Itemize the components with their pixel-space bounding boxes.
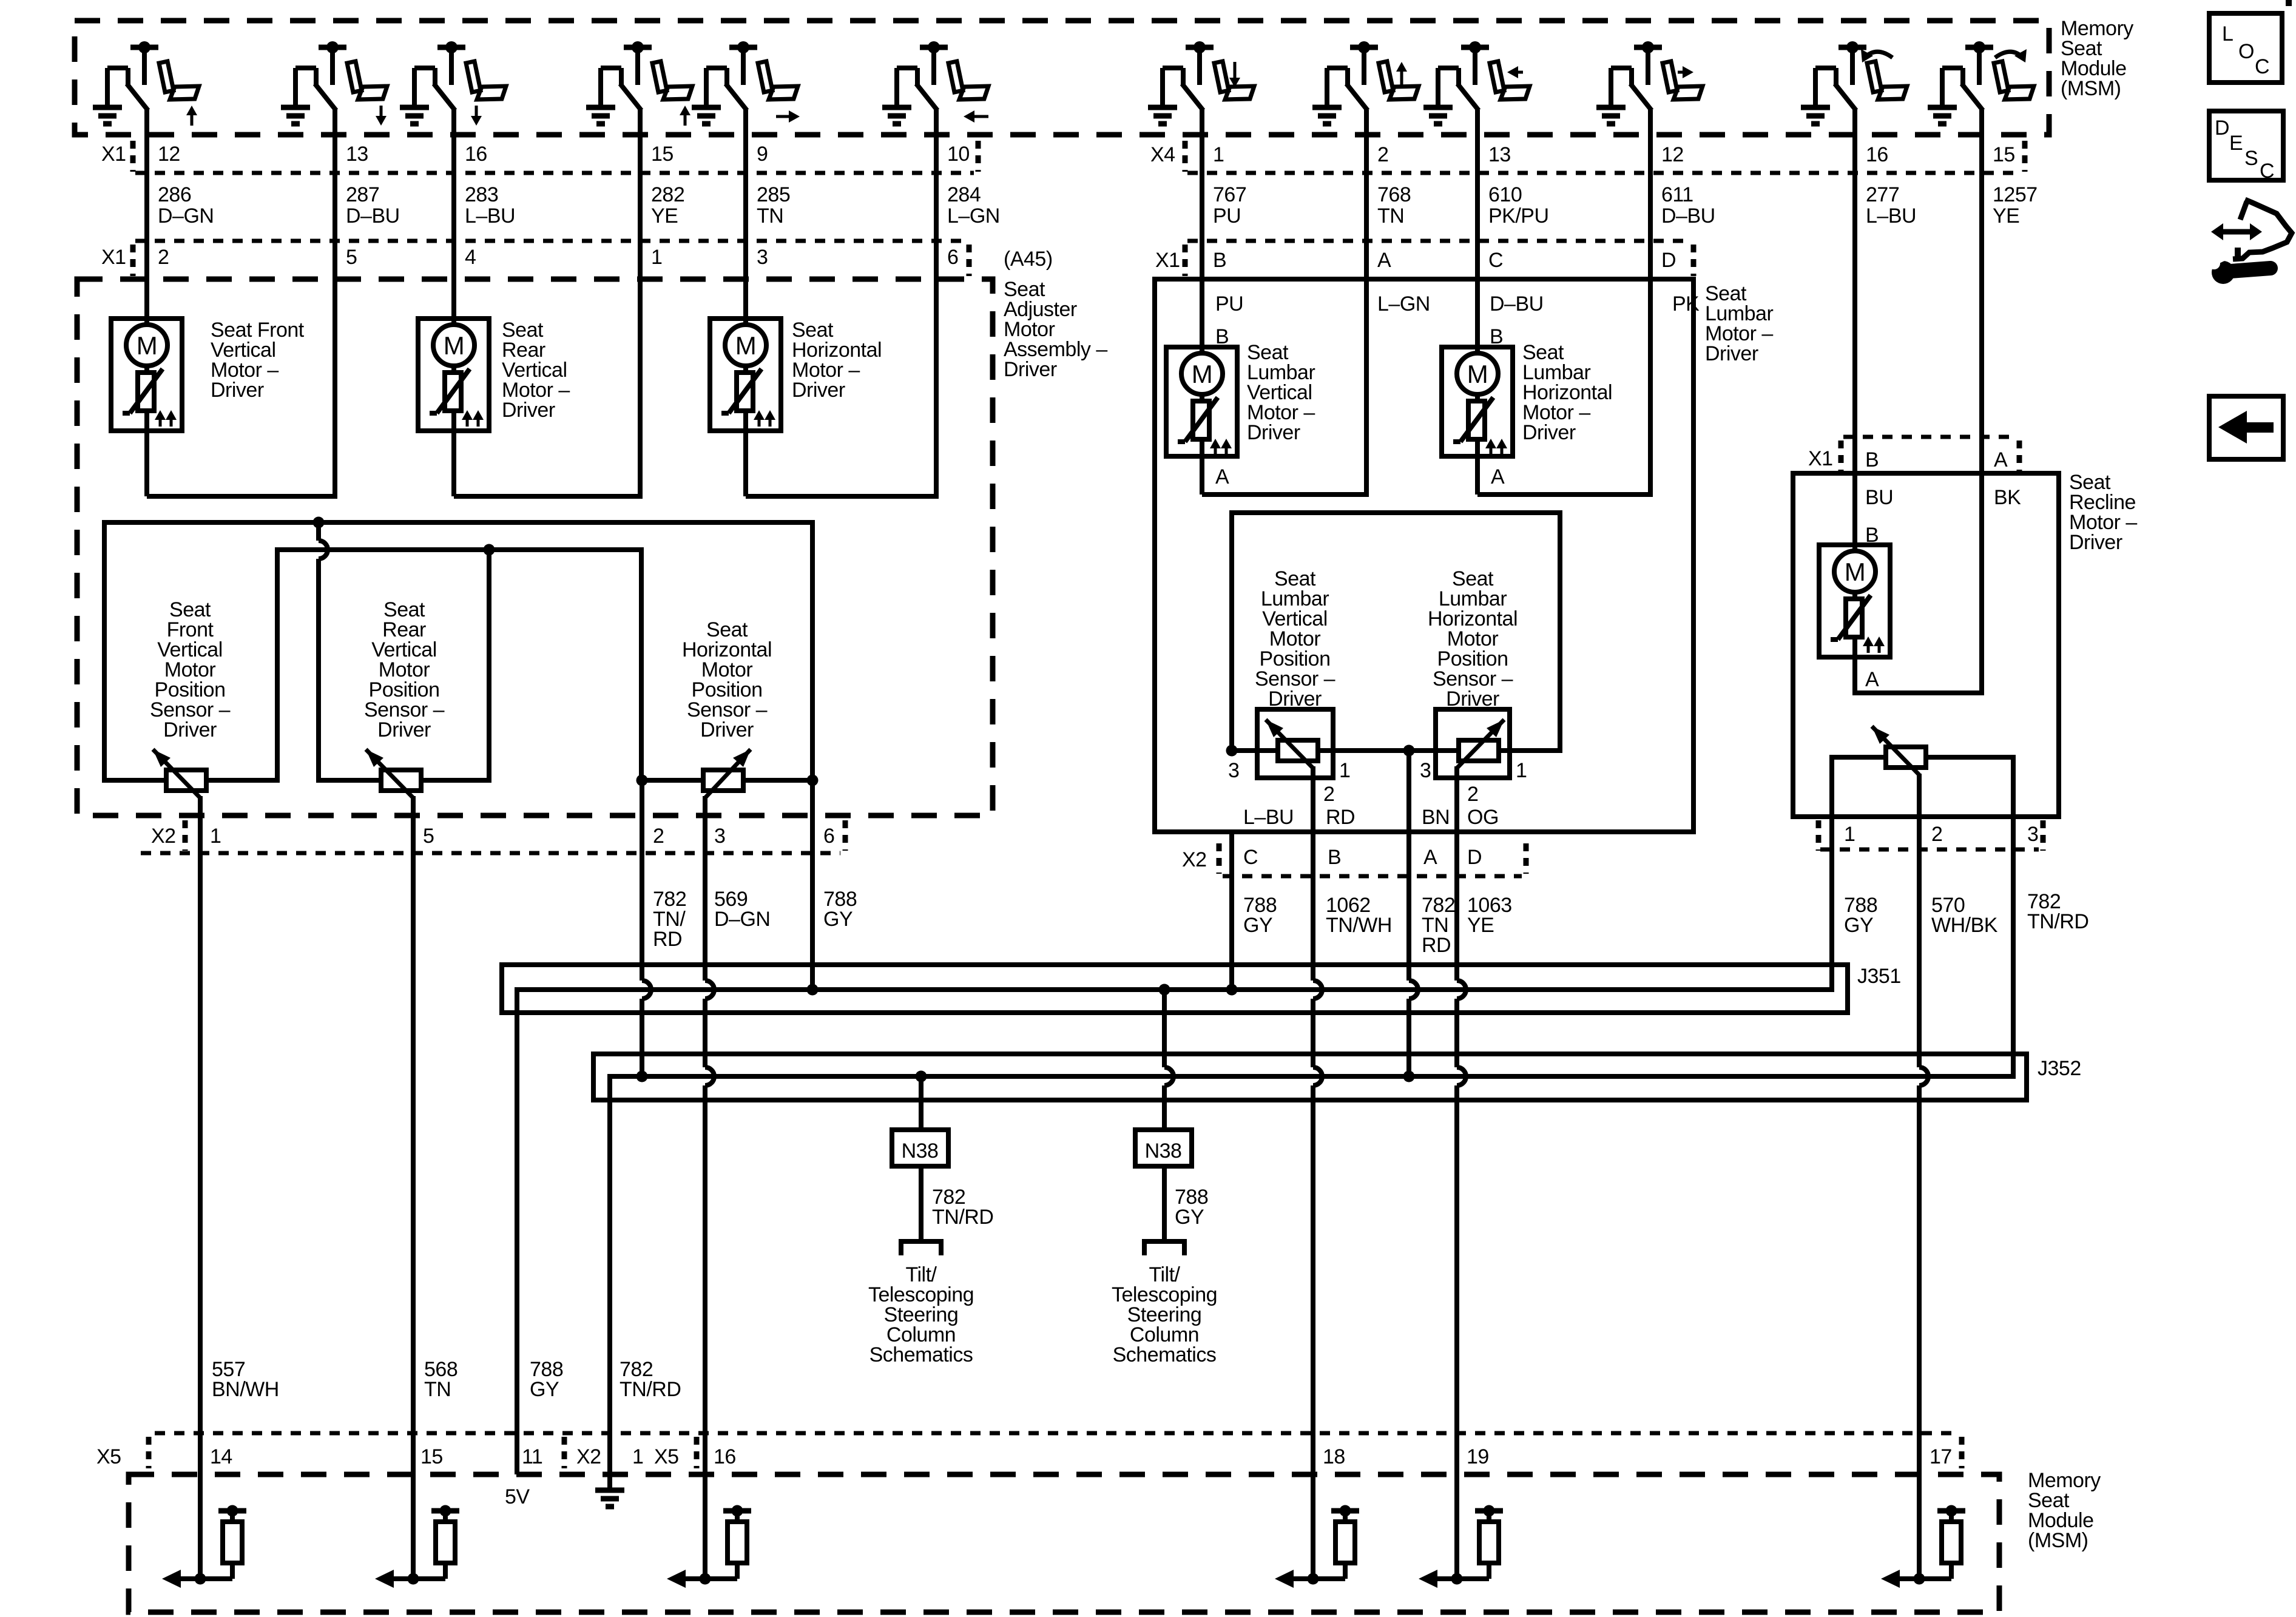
- svg-text:15: 15: [1993, 143, 2015, 166]
- switch: seat horizontal rearward switch: [882, 41, 988, 124]
- svg-text:L–BU: L–BU: [465, 204, 515, 228]
- switch: seat recline forward switch: [1928, 41, 2034, 124]
- X5 bottom row separator 1: [146, 1437, 152, 1468]
- svg-text:TN: TN: [1377, 204, 1404, 228]
- svg-text:TN: TN: [757, 204, 783, 228]
- wire: motor M2 return to pin 1 wire: [454, 494, 643, 499]
- wire 569 D-GN X2-3 to X5-16: [703, 796, 707, 981]
- lumbar sensors container left wire (pin C): [1229, 510, 1234, 753]
- MSM internal pull-up resistor and arrow at pin 14: [195, 1573, 206, 1585]
- svg-text:X1: X1: [1808, 447, 1833, 470]
- Seat Recline Motor outer box: [1793, 473, 2059, 817]
- wire N38-1 to off-page: [919, 1166, 923, 1241]
- X2 lumbar row separator left: [1217, 843, 1222, 874]
- svg-text:TN: TN: [424, 1378, 451, 1401]
- switch: lumbar vertical down switch: [1148, 41, 1254, 124]
- switch: seat front vertical up switch: [93, 41, 199, 126]
- splice pack J352 bus conductor: [607, 1074, 2016, 1079]
- wire: motor M3 return to pin 6 wire: [746, 494, 939, 499]
- wire from switch at x=552 down: [333, 110, 337, 499]
- svg-text:A: A: [1423, 846, 1437, 869]
- junction dot J351 x=1919: [1159, 984, 1170, 996]
- svg-text:(MSM): (MSM): [2061, 77, 2121, 100]
- svg-text:4: 4: [465, 246, 476, 269]
- wire N38-2 to off-page: [1162, 1166, 1167, 1241]
- svg-text:L: L: [2222, 22, 2233, 46]
- svg-text:16: 16: [465, 143, 487, 166]
- switch: seat rear vertical up/down switch: [400, 41, 506, 126]
- splice N38 box 2: [1135, 1130, 1192, 1166]
- LOC legend box: [2209, 13, 2282, 83]
- svg-text:X2: X2: [576, 1445, 601, 1468]
- splice pack J352 outer loop: [593, 1054, 2027, 1100]
- svg-text:C: C: [2260, 160, 2274, 183]
- X1 connector row 1 separator right: [976, 141, 981, 172]
- switch: lumbar vertical up switch: [1312, 41, 1419, 124]
- wire from switch at x=3266 down: [1979, 110, 1984, 695]
- seat front vertical motor M1 (driver): [111, 319, 182, 431]
- svg-text:C: C: [2255, 55, 2269, 78]
- Memory Seat Module (MSM) dashed enclosure (top): [75, 21, 2049, 135]
- potentiometer: lumbar vertical position sensor: [1278, 740, 1318, 761]
- harness connector icon double arrow: [2223, 229, 2237, 235]
- wrench icon: [2212, 261, 2235, 284]
- wire 782 TN/RD recline 3 to J352: [2011, 849, 2016, 1079]
- svg-text:A: A: [1377, 249, 1391, 272]
- svg-text:1: 1: [1213, 143, 1224, 166]
- switch: lumbar horizontal switch 2: [1596, 41, 1703, 124]
- svg-text:16: 16: [714, 1445, 736, 1468]
- svg-text:15: 15: [651, 143, 674, 166]
- svg-text:285: 285: [757, 183, 790, 206]
- svg-text:M: M: [1192, 360, 1213, 388]
- wire 557 BN/WH sensor1 wiper to X5-14: [198, 796, 203, 1579]
- svg-text:Driver: Driver: [1004, 358, 1057, 381]
- X4 connector row separator left: [1183, 141, 1188, 172]
- svg-text:3: 3: [757, 246, 768, 269]
- seat lumbar horizontal motor (driver): [1442, 347, 1513, 456]
- potentiometer: seat horizontal position sensor: [703, 770, 743, 791]
- svg-text:2: 2: [158, 246, 169, 269]
- X1 lumbar connector row separator left: [1183, 245, 1188, 276]
- svg-text:TN/RD: TN/RD: [620, 1378, 681, 1401]
- svg-text:BN/WH: BN/WH: [212, 1378, 279, 1401]
- wire from switch at x=3057 down: [1852, 110, 1857, 551]
- X5 bottom row separator 2: [562, 1437, 567, 1468]
- svg-text:Driver: Driver: [1247, 421, 1300, 444]
- svg-text:RD: RD: [653, 928, 682, 951]
- seat lumbar vertical motor (driver): [1166, 347, 1237, 456]
- svg-text:PU: PU: [1213, 204, 1241, 228]
- svg-text:C: C: [1488, 249, 1503, 272]
- wire from switch at x=748 down: [451, 110, 456, 325]
- Seat Adjuster Motor Assembly (A45) dashed enclosure: [77, 279, 993, 815]
- seat lumbar horizontal position sensor box: [1436, 709, 1510, 778]
- wire: lumbar horizontal motor return down: [1475, 456, 1480, 495]
- svg-text:L–BU: L–BU: [1866, 204, 1916, 228]
- junction dot sensor3 bottom right: [807, 775, 819, 786]
- svg-text:X2: X2: [1182, 848, 1207, 871]
- off-page connector 1: [901, 1241, 941, 1255]
- svg-text:D: D: [2215, 116, 2229, 140]
- svg-text:B: B: [1328, 846, 1341, 869]
- junction dot lumbar line left: [1226, 745, 1238, 757]
- wire: sensor supply line A: [102, 520, 815, 525]
- svg-text:Driver: Driver: [163, 718, 217, 741]
- svg-text:17: 17: [1930, 1445, 1952, 1468]
- recline X1 row separator right: [2017, 441, 2022, 471]
- wire: motor M1 return to pin 5 wire: [147, 494, 337, 499]
- MSM internal pull-up resistor and arrow at pin 19: [1451, 1573, 1463, 1585]
- svg-text:1: 1: [651, 246, 662, 269]
- MSM internal pull-up resistor and arrow at pin 17: [1914, 1573, 1925, 1585]
- wire: lumbar horizontal motor return to pin D: [1477, 492, 1653, 497]
- svg-text:3: 3: [2027, 823, 2038, 846]
- X4 connector row bottom dashed line: [1187, 171, 2021, 175]
- potentiometer: seat rear vertical position sensor: [381, 770, 421, 791]
- svg-text:D–BU: D–BU: [1661, 204, 1715, 228]
- junction dot lumbar line mid: [1403, 745, 1415, 757]
- svg-text:2: 2: [1467, 783, 1478, 806]
- svg-text:18: 18: [1323, 1445, 1345, 1468]
- svg-text:J352: J352: [2038, 1057, 2081, 1080]
- svg-text:X1: X1: [101, 246, 126, 269]
- svg-text:Schematics: Schematics: [869, 1343, 973, 1366]
- svg-text:2: 2: [1931, 823, 1942, 846]
- svg-text:GY: GY: [1175, 1206, 1204, 1229]
- potentiometer: seat recline position sensor: [1886, 747, 1926, 768]
- wire from switch at x=2252 down: [1364, 110, 1369, 497]
- sensor1 box bottom wire: [102, 778, 280, 783]
- X1 lumbar connector row separator right: [1691, 245, 1697, 276]
- svg-text:3: 3: [1420, 759, 1431, 782]
- svg-text:11: 11: [522, 1445, 542, 1468]
- sensor2 left wire with hop over line B: [316, 522, 321, 541]
- svg-text:6: 6: [823, 825, 834, 848]
- svg-text:283: 283: [465, 183, 498, 206]
- svg-text:L–BU: L–BU: [1243, 806, 1294, 829]
- wire from switch at x=242 down: [144, 110, 149, 325]
- MSM internal pull-up resistor and arrow at pin 16: [700, 1573, 711, 1585]
- X1 connector row 1 separator left: [130, 141, 136, 172]
- switch: seat front vertical switch: [586, 41, 692, 126]
- svg-text:13: 13: [1488, 143, 1511, 166]
- svg-text:12: 12: [158, 143, 180, 166]
- wire 788 GY recline 1 to J351: [1829, 849, 1834, 992]
- svg-text:TN/RD: TN/RD: [932, 1206, 993, 1229]
- svg-text:12: 12: [1661, 143, 1684, 166]
- junction dot J352 x=2322: [1403, 1071, 1415, 1082]
- svg-text:M: M: [1845, 558, 1866, 586]
- svg-text:PK: PK: [1672, 292, 1700, 316]
- wire 788 GY X2-6 to J351: [810, 780, 815, 990]
- wire: sensor return line B: [275, 547, 644, 552]
- wire: recline pin1 wire down inside box: [1829, 755, 1834, 849]
- svg-text:13: 13: [346, 143, 368, 166]
- svg-text:Driver: Driver: [211, 379, 264, 402]
- svg-text:TN/WH: TN/WH: [1326, 914, 1392, 937]
- svg-text:D–GN: D–GN: [158, 204, 214, 228]
- svg-text:BK: BK: [1994, 486, 2021, 509]
- svg-text:M: M: [735, 331, 757, 360]
- svg-text:6: 6: [947, 246, 958, 269]
- svg-text:B: B: [1213, 249, 1226, 272]
- svg-text:TN/RD: TN/RD: [2027, 910, 2088, 933]
- junction dot sensor3 bottom left: [636, 775, 648, 786]
- svg-text:10: 10: [947, 143, 970, 166]
- potentiometer: lumbar horizontal position sensor: [1459, 740, 1499, 761]
- junction dot J352 x=1060: [636, 1071, 648, 1082]
- svg-text:Schematics: Schematics: [1113, 1343, 1217, 1366]
- junction dot J352 x=1518: [916, 1071, 927, 1082]
- svg-text:1: 1: [1516, 759, 1527, 782]
- lumbar sensor supply line: [1229, 748, 1562, 753]
- wire: motor M2 return down: [451, 431, 456, 496]
- svg-text:2: 2: [653, 825, 664, 848]
- sensor3 box left edge wire: [639, 547, 644, 783]
- svg-text:19: 19: [1467, 1445, 1489, 1468]
- X5 bottom row separator 3: [694, 1437, 700, 1468]
- svg-text:RD: RD: [1422, 934, 1451, 957]
- wire: recline pin3 wire down inside box: [2011, 755, 2016, 849]
- wire N38 branch 2 to J351: [1162, 990, 1167, 1067]
- svg-text:3: 3: [1228, 759, 1239, 782]
- svg-text:1: 1: [1844, 823, 1855, 846]
- svg-text:GY: GY: [530, 1378, 559, 1401]
- svg-text:M: M: [137, 331, 158, 360]
- lumbar sensors container right wire: [1558, 510, 1562, 753]
- wire 788 GY lumbar C to J351: [1229, 832, 1234, 990]
- junction dot J351 x=1339: [807, 984, 819, 996]
- wire: motor M1 return down: [144, 431, 149, 496]
- wire 1062 TN/WH lumbar B to X5-18: [1311, 766, 1315, 981]
- svg-text:D: D: [1661, 249, 1676, 272]
- svg-text:1257: 1257: [1993, 183, 2038, 206]
- svg-text:N38: N38: [902, 1139, 939, 1163]
- X1 connector row 1 bottom dashed line: [135, 171, 974, 175]
- svg-text:X2: X2: [151, 825, 176, 848]
- ground symbol at X2-1: [595, 1488, 624, 1493]
- wire from switch at x=1981 down: [1200, 110, 1204, 353]
- svg-text:9: 9: [757, 143, 768, 166]
- recline bottom row dashed line: [1820, 848, 2039, 852]
- potentiometer: seat front vertical position sensor: [166, 770, 206, 791]
- svg-text:14: 14: [210, 1445, 232, 1468]
- splice N38 box 1: [892, 1130, 948, 1166]
- wire 570 WH/BK recline 2 to X5-17: [1917, 849, 1922, 1067]
- junction dot J351 x=2030: [1226, 984, 1238, 996]
- back arrow legend box: [2209, 396, 2283, 459]
- svg-text:N38: N38: [1145, 1139, 1182, 1163]
- switch: lumbar horizontal switch: [1423, 41, 1530, 124]
- svg-text:D–GN: D–GN: [714, 908, 770, 931]
- wire 782 TN RD lumbar A to J352: [1406, 751, 1411, 981]
- svg-text:5V: 5V: [505, 1485, 530, 1508]
- recline X1 row separator left: [1838, 441, 1844, 471]
- junction dot on line B: [484, 544, 495, 556]
- MSM internal pull-up resistor and arrow at pin 18: [1308, 1573, 1319, 1585]
- sensor2 right edge wire: [487, 550, 491, 783]
- Seat Lumbar Motor assembly outer box: [1155, 279, 1693, 832]
- svg-text:D–BU: D–BU: [1490, 292, 1544, 316]
- svg-text:A: A: [1994, 448, 2008, 471]
- DESC legend box: [2209, 111, 2283, 180]
- svg-text:X1: X1: [1155, 249, 1180, 272]
- svg-text:16: 16: [1866, 143, 1888, 166]
- X2 lumbar row separator right: [1524, 843, 1529, 874]
- svg-text:284: 284: [947, 183, 981, 206]
- wire from switch at x=1543 down: [934, 110, 939, 499]
- switch: seat horizontal forward switch: [692, 41, 800, 124]
- X1 connector row 2 separator right: [967, 245, 972, 276]
- svg-text:BN: BN: [1422, 806, 1450, 829]
- wire 788 GY J351 to X5-11 (5V): [515, 987, 519, 1474]
- svg-text:1: 1: [1339, 759, 1350, 782]
- wire from switch at x=2435 down: [1475, 110, 1480, 353]
- wire 782 TN/RD J352 to X2-1 ground: [607, 1074, 612, 1488]
- svg-text:2: 2: [1323, 783, 1334, 806]
- svg-text:Driver: Driver: [1522, 421, 1576, 444]
- off-page connector 2: [1144, 1241, 1184, 1255]
- svg-text:Driver: Driver: [502, 399, 555, 422]
- svg-text:E: E: [2229, 132, 2243, 155]
- svg-text:(MSM): (MSM): [2028, 1529, 2088, 1552]
- svg-text:(A45): (A45): [1004, 248, 1053, 271]
- svg-text:O: O: [2238, 40, 2254, 63]
- svg-text:PU: PU: [1215, 292, 1243, 316]
- sensor1 box left edge wire: [102, 520, 107, 783]
- svg-text:X5: X5: [654, 1445, 679, 1468]
- sensor2 box bottom wire: [316, 778, 491, 783]
- wire: lumbar vertical motor return down: [1200, 456, 1204, 495]
- wire: recline sensor line: [1829, 755, 2016, 760]
- wire 568 TN sensor2 wiper to X5-15: [411, 796, 416, 1579]
- X5 bottom row separator 4: [1959, 1437, 1965, 1468]
- svg-text:RD: RD: [1326, 806, 1355, 829]
- wire from switch at x=1055 down: [638, 110, 643, 499]
- X4 connector row separator right: [2022, 141, 2028, 172]
- svg-text:L–GN: L–GN: [1377, 292, 1430, 316]
- svg-text:D–BU: D–BU: [346, 204, 400, 228]
- harness connector icon outline: [2233, 200, 2292, 259]
- svg-text:5: 5: [346, 246, 357, 269]
- svg-text:Driver: Driver: [700, 718, 754, 741]
- svg-text:Driver: Driver: [792, 379, 845, 402]
- page corner mark: [2286, 0, 2292, 6]
- svg-text:X5: X5: [96, 1445, 121, 1468]
- svg-text:A: A: [1491, 465, 1505, 488]
- svg-text:X1: X1: [101, 143, 126, 166]
- X5 bottom row top dashed line: [155, 1431, 1959, 1436]
- svg-text:3: 3: [714, 825, 725, 848]
- recline bottom row separator right: [2041, 820, 2046, 851]
- svg-text:BU: BU: [1865, 486, 1893, 509]
- svg-text:J351: J351: [1857, 965, 1901, 988]
- X2 lumbar row bottom dashed line: [1223, 874, 1522, 879]
- svg-text:282: 282: [651, 183, 684, 206]
- seat recline motor (driver): [1819, 545, 1890, 657]
- sensor1 box right edge wire: [275, 547, 280, 783]
- svg-text:5: 5: [423, 825, 434, 848]
- svg-text:X4: X4: [1150, 143, 1175, 166]
- svg-text:610: 610: [1488, 183, 1522, 206]
- splice pack J351 bus conductor: [515, 987, 1834, 992]
- svg-text:Driver: Driver: [1446, 687, 1499, 711]
- svg-text:B: B: [1865, 448, 1879, 471]
- sensor3 box bottom wire: [639, 778, 815, 783]
- MSM internal pull-up resistor and arrow at pin 15: [408, 1573, 419, 1585]
- junction dot on line A: [313, 517, 325, 528]
- svg-text:287: 287: [346, 183, 379, 206]
- svg-text:768: 768: [1377, 183, 1411, 206]
- svg-text:A: A: [1215, 465, 1229, 488]
- svg-text:A: A: [1865, 668, 1879, 691]
- svg-text:277: 277: [1866, 183, 1899, 206]
- X1 lumbar connector row top dashed line: [1187, 239, 1689, 243]
- switch: seat rear vertical down switch: [281, 41, 387, 126]
- splice pack J351 outer loop: [502, 965, 1848, 1013]
- svg-text:Driver: Driver: [1705, 342, 1758, 365]
- X1 connector row 2 top dashed line: [135, 239, 965, 243]
- svg-text:Driver: Driver: [377, 718, 431, 741]
- svg-text:611: 611: [1661, 183, 1693, 206]
- wire 1063 YE lumbar D to X5-19: [1454, 766, 1459, 981]
- svg-text:YE: YE: [1467, 914, 1494, 937]
- sensor3 box right edge wire: [810, 520, 815, 783]
- svg-text:Driver: Driver: [2069, 531, 2122, 554]
- X2 row separator right: [843, 820, 848, 851]
- wire: motor M3 return down: [743, 431, 748, 496]
- svg-text:M: M: [1467, 360, 1488, 388]
- svg-text:286: 286: [158, 183, 191, 206]
- svg-text:M: M: [444, 331, 465, 360]
- svg-text:OG: OG: [1467, 806, 1499, 829]
- recline bottom row separator left: [1816, 820, 1822, 851]
- wire 782 TN/RD X2-2 to J352: [640, 780, 644, 981]
- wire: recline wiper wire down: [1917, 774, 1922, 849]
- svg-text:767: 767: [1213, 183, 1246, 206]
- recline X1 row top dashed line: [1843, 435, 2014, 439]
- seat rear vertical motor M2 (driver): [418, 319, 489, 431]
- wire from switch at x=1229 down: [743, 110, 748, 325]
- X2 row separator left: [183, 820, 188, 851]
- svg-text:WH/BK: WH/BK: [1931, 914, 1998, 937]
- seat horizontal motor M3 (driver): [710, 319, 781, 431]
- wire: recline motor return down: [1852, 657, 1857, 693]
- svg-text:L–GN: L–GN: [947, 204, 1000, 228]
- X2 row bottom dashed line: [141, 851, 840, 856]
- wire: recline motor return horizontal: [1852, 690, 1984, 695]
- svg-text:1: 1: [210, 825, 221, 848]
- svg-text:D: D: [1467, 846, 1482, 869]
- svg-text:GY: GY: [1243, 914, 1272, 937]
- svg-text:1: 1: [632, 1445, 643, 1468]
- svg-text:YE: YE: [651, 204, 678, 228]
- switch: seat recline rearward switch: [1801, 41, 1907, 124]
- X1 connector row 2 separator left: [130, 245, 136, 276]
- wire: lumbar vertical motor return to pin A: [1202, 492, 1369, 497]
- wire N38 branch 1 to J352: [919, 1076, 923, 1130]
- svg-text:PK/PU: PK/PU: [1488, 204, 1549, 228]
- wire from switch at x=2720 down: [1648, 110, 1653, 497]
- Memory Seat Module (MSM) dashed enclosure (bottom): [129, 1474, 1999, 1612]
- lumbar sensors container box top: [1229, 510, 1562, 515]
- svg-text:C: C: [1243, 846, 1258, 869]
- svg-text:2: 2: [1377, 143, 1388, 166]
- seat lumbar vertical position sensor box: [1257, 709, 1333, 778]
- svg-text:GY: GY: [1844, 914, 1873, 937]
- svg-text:YE: YE: [1993, 204, 2019, 228]
